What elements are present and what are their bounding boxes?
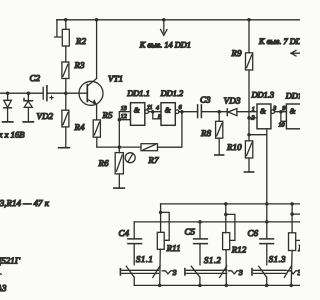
svg-text:R13: R13	[297, 243, 300, 253]
node junction dot pin14 arrow tap	[162, 18, 166, 22]
node junction dot R13 top	[290, 202, 294, 206]
resistor R4	[62, 110, 69, 147]
svg-text:VD2: VD2	[37, 111, 54, 121]
wire pin 2	[249, 117, 257, 119]
svg-text:VT1: VT1	[108, 74, 123, 84]
ground bar R6	[114, 187, 125, 189]
capacitor C6	[260, 239, 274, 265]
svg-text:C2: C2	[30, 73, 41, 83]
node junction dot vertical crossing rail1	[265, 202, 269, 206]
svg-text:C3: C3	[200, 94, 211, 104]
svg-text:DD1.1: DD1.1	[126, 89, 150, 98]
ground bar VD1	[3, 121, 13, 123]
op-amp gate DD1.2	[161, 103, 179, 126]
op-amp gate DD1.4	[286, 104, 302, 129]
diode VD1	[4, 93, 12, 121]
svg-text:VD3: VD3	[224, 95, 241, 105]
node junction dot feedback	[180, 110, 184, 114]
transistor VT1	[79, 20, 103, 120]
wire DD1.3 out to DD1.4	[275, 112, 287, 122]
diode VD2 zener	[24, 93, 32, 121]
node junction dot C6 top	[265, 220, 269, 224]
node junction dot DD1.4 input	[279, 110, 283, 114]
diode VD3	[227, 109, 257, 116]
svg-text:R4: R4	[74, 122, 86, 132]
ground bar R4	[59, 147, 70, 149]
svg-text:R7: R7	[148, 155, 160, 165]
resistor R9	[246, 20, 253, 135]
svg-text:1: 1	[252, 107, 255, 113]
capacitor C4	[128, 222, 142, 265]
svg-text:11: 11	[147, 105, 153, 111]
svg-text:C5: C5	[185, 227, 196, 237]
wire pin14 arrow	[161, 20, 167, 36]
resistor R7	[141, 144, 158, 151]
resistor R11 trimmer	[157, 204, 169, 286]
node junction dot C5 top	[198, 220, 202, 224]
node junction dot S1.3 right	[289, 284, 293, 288]
svg-text:C6: C6	[248, 228, 259, 238]
node junction dot VD1	[6, 91, 10, 95]
svg-text:Д521Г: Д521Г	[0, 255, 21, 265]
svg-text:9: 9	[282, 106, 285, 112]
wire feedback R7 loop	[158, 112, 182, 148]
node junction dot DD1.2 input	[151, 110, 155, 114]
node junction dot S1.1 right	[158, 284, 162, 288]
svg-text:R12: R12	[231, 244, 247, 254]
svg-text:DD1.2: DD1.2	[160, 89, 184, 98]
svg-text:12: 12	[121, 114, 127, 120]
svg-text:А3: А3	[0, 283, 7, 293]
svg-text:13: 13	[121, 106, 127, 112]
resistor R6 thermistor	[115, 147, 123, 188]
resistor R2	[62, 20, 69, 62]
svg-text:к х 16В: к х 16В	[0, 129, 25, 139]
svg-text:З: З	[298, 268, 300, 277]
wire DD1.2 output to C3	[179, 111, 198, 113]
wire input net left	[0, 92, 43, 94]
svg-text:R8: R8	[200, 128, 212, 138]
svg-text:&: &	[165, 106, 171, 115]
wire rail2 timing	[134, 221, 300, 223]
node junction dot R10 top	[247, 133, 251, 137]
wire link to DD1.3 bottom	[249, 134, 267, 136]
label C2 plus	[50, 96, 53, 99]
svg-text:R9: R9	[231, 48, 243, 58]
svg-text:&: &	[134, 106, 140, 115]
ground bar R10	[244, 171, 253, 173]
switch S1.3	[252, 266, 298, 286]
svg-text:R11: R11	[166, 243, 181, 253]
svg-text:3,R14 — 47 к: 3,R14 — 47 к	[0, 198, 50, 208]
resistor R12 trimmer	[223, 204, 235, 286]
svg-text:&: &	[290, 106, 296, 115]
svg-text:R6: R6	[98, 158, 110, 168]
svg-text:6: 6	[179, 105, 182, 111]
op-amp gate DD1.3	[257, 104, 275, 129]
wire emitter row to R7	[97, 146, 141, 148]
svg-text:DD1.4: DD1.4	[285, 92, 300, 101]
node junction dot pin2	[247, 116, 251, 120]
ground bar R8	[215, 154, 224, 156]
node junction dot S1.3 left	[265, 284, 269, 288]
ground bar VD2	[23, 121, 33, 123]
resistor R10	[245, 135, 252, 172]
svg-text:З: З	[173, 268, 177, 277]
switch S1.2	[185, 266, 239, 286]
resistor R5	[93, 120, 100, 147]
switch S1.1	[120, 266, 172, 286]
svg-text:R2: R2	[75, 36, 87, 46]
wire arrow to pin7	[291, 50, 300, 56]
node junction dot S1.2 left	[198, 284, 202, 288]
resistor R3	[62, 62, 69, 110]
label comma fragment	[0, 273, 1, 276]
wire top supply rail	[57, 19, 300, 21]
svg-text:R3: R3	[74, 60, 86, 70]
svg-text:&: &	[260, 106, 266, 115]
svg-text:З: З	[239, 268, 243, 277]
resistor R13 trimmer	[289, 204, 301, 286]
node junction dot R2 top	[64, 18, 68, 22]
wire DD1.3 bottom vertical to C6	[266, 129, 268, 239]
node junction dot R12 top	[224, 202, 228, 206]
node junction dot base wire / R3-R4	[64, 91, 68, 95]
svg-text:C4: C4	[119, 228, 130, 238]
resistor R8	[216, 112, 223, 155]
svg-text:10: 10	[279, 123, 285, 129]
wire rail1 timing	[161, 203, 300, 205]
svg-text:R10: R10	[226, 142, 242, 152]
wire bottom rail	[134, 284, 300, 286]
svg-text:S1.2: S1.2	[204, 255, 221, 265]
node junction dot R6 top	[118, 145, 122, 149]
svg-text:R5: R5	[102, 110, 114, 120]
capacitor C3	[198, 105, 228, 118]
svg-text:К выв. 7 DD2: К выв. 7 DD2	[258, 37, 300, 46]
wire DD1.1 out to DD1.2 pins	[149, 112, 162, 119]
capacitor C5	[194, 222, 208, 265]
svg-text:S1.1: S1.1	[136, 254, 153, 264]
svg-text:2: 2	[252, 115, 255, 121]
svg-text:К выв. 14 DD1: К выв. 14 DD1	[139, 40, 191, 49]
wire R2 trimmer tap bracket	[55, 20, 66, 37]
svg-text:S1.3: S1.3	[269, 254, 286, 264]
thermistor circle mark R6	[125, 153, 135, 163]
node junction dot R8 top	[217, 110, 221, 114]
node junction dot VT1 collector	[95, 18, 99, 22]
capacitor C2 polarized	[43, 86, 87, 101]
node junction dot S1.2 right	[225, 284, 229, 288]
node junction dot R9 top	[247, 18, 251, 22]
svg-text:4: 4	[156, 105, 159, 111]
op-amp gate DD1.1	[131, 103, 149, 126]
svg-text:DD1.3: DD1.3	[251, 90, 275, 99]
wire DD1.1 input pins 13 12	[119, 112, 130, 147]
node junction dot VD2	[27, 91, 31, 95]
